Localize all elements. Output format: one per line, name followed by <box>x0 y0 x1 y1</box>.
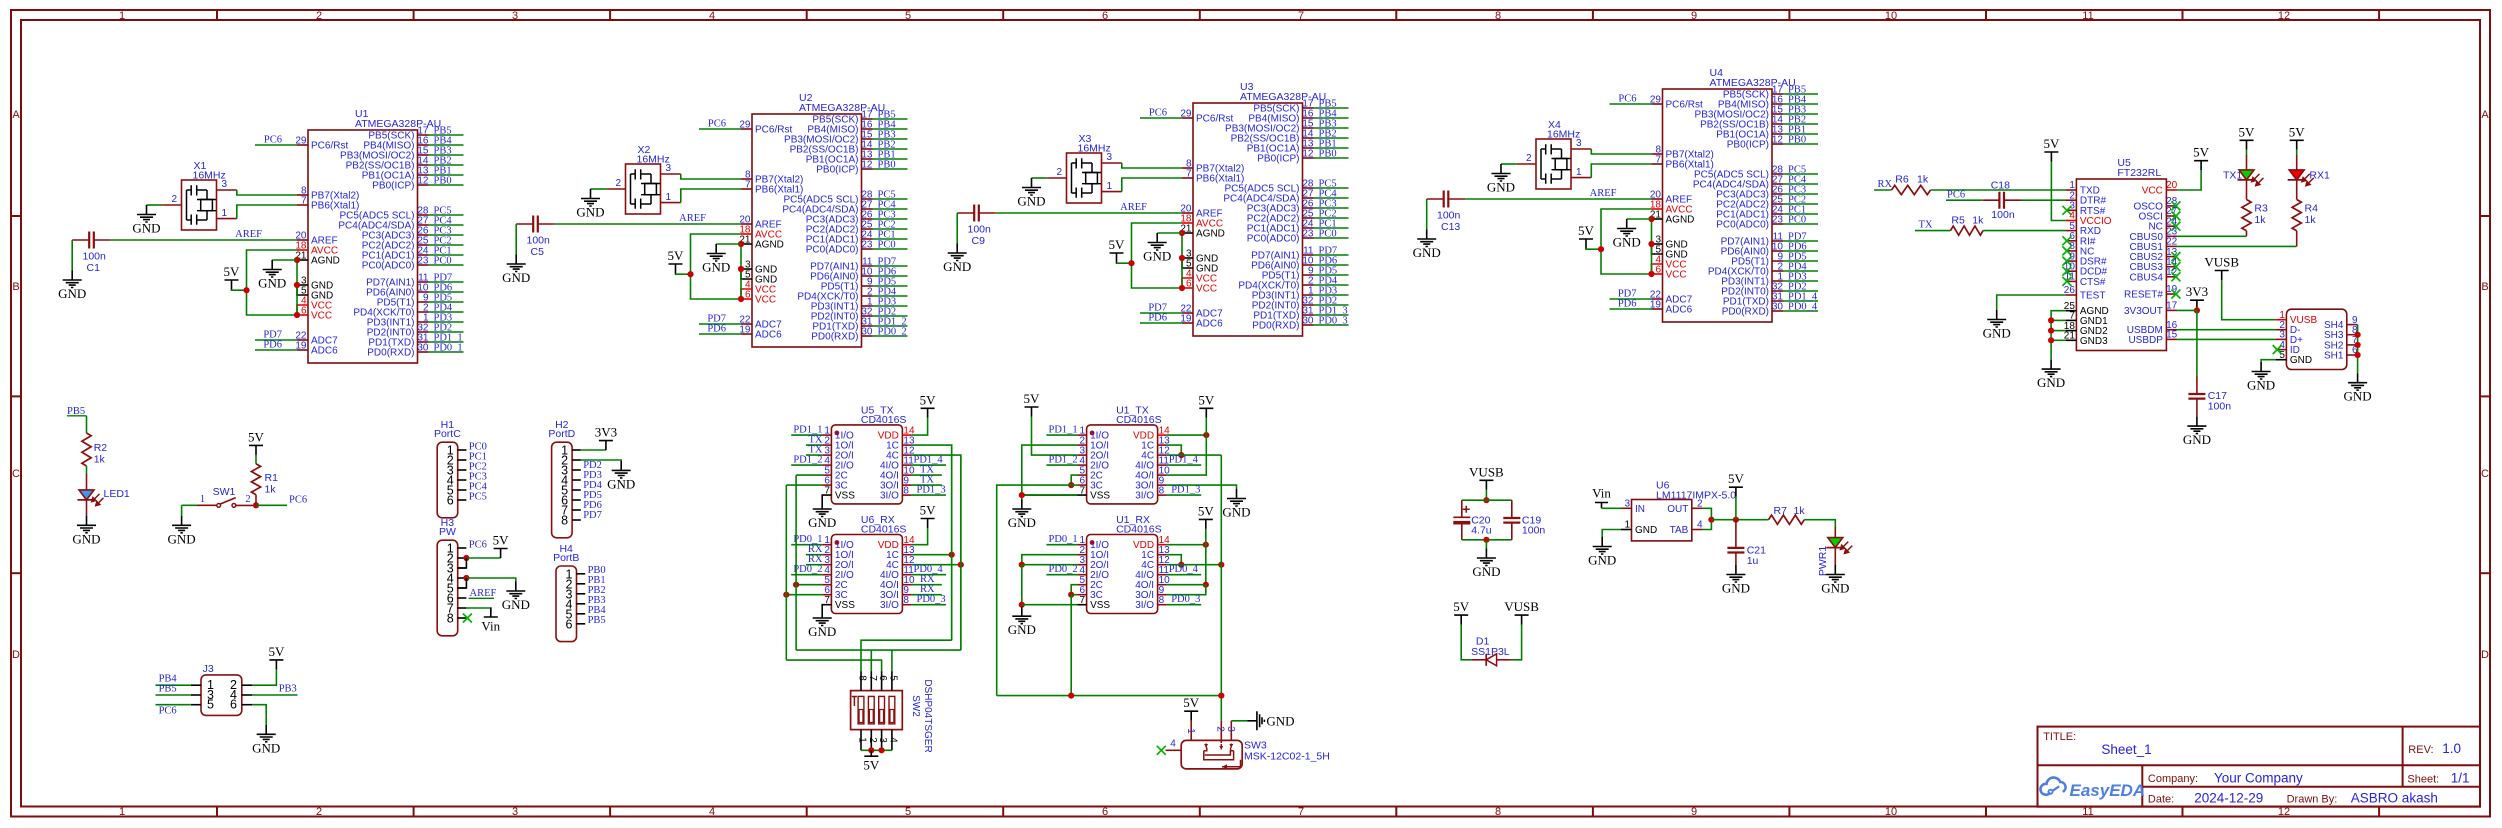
H4 pin 4 <box>577 603 586 605</box>
crystal X1 16MHz <box>182 180 217 230</box>
wire <box>873 138 908 140</box>
svg-text:GND: GND <box>1008 622 1036 637</box>
ground for C9 <box>948 244 967 261</box>
U2 pin 17 PB5(SCK) net PB5 <box>862 118 873 120</box>
U3 pin 12 PB0(ICP) net PB0 <box>1303 157 1314 159</box>
junction U1_TX gnd rail <box>1019 492 1025 498</box>
svg-text:PC0: PC0 <box>434 256 452 267</box>
junction C20/C19 top <box>1483 497 1489 503</box>
J3 pin 2 <box>242 684 252 686</box>
U4 pin 10 PD6(AIN0) net PD6 <box>1772 250 1783 252</box>
U1_TX pin 13 1C <box>1158 444 1167 446</box>
svg-text:3: 3 <box>512 806 518 818</box>
U1_RX pin 11 4I/O <box>1158 574 1167 576</box>
ground for U1_TX pin9 <box>1227 489 1246 506</box>
U4 pin 28 PC5(ADC5 SCL) net PC5 <box>1772 173 1783 175</box>
U5 pin 4 VCCIO <box>2066 220 2077 222</box>
svg-text:PWR1: PWR1 <box>1817 546 1829 576</box>
U2 pin 28 PC5(ADC5 SCL) net PC5 <box>862 198 873 200</box>
wire U5_TX pin5 to bus <box>796 474 822 476</box>
U3 pin 1 PD3(INT1) net PD3 <box>1303 294 1314 296</box>
U1 pin 15 PB3(MOSI/OC2) net PB3 <box>418 154 429 156</box>
U2 pin 11 PD7(AIN1) net PD7 <box>862 265 873 267</box>
H3 pin 4 <box>458 577 467 579</box>
svg-text:6: 6 <box>566 617 573 631</box>
wire net PC6 <box>256 504 287 506</box>
switch SW1 <box>197 504 217 506</box>
wire bus to SW2 pin6 <box>786 660 881 671</box>
U1_RX pin 6 3C <box>1077 594 1086 596</box>
wire U5_TX VSS to ground <box>822 495 831 499</box>
U1 pin 10 PD6(AIN0) net PD6 <box>418 291 429 293</box>
svg-text:GND: GND <box>252 740 280 755</box>
junction <box>1598 246 1604 252</box>
U1 pin 17 PB5(SCK) net PB5 <box>418 134 429 136</box>
Vin power flag <box>484 608 498 618</box>
bus wire U5 pin6 vertical <box>785 485 787 660</box>
H3 pin 2 <box>458 557 467 559</box>
svg-text:19: 19 <box>1180 314 1192 325</box>
U5 pin 16 USBDM <box>2166 329 2177 331</box>
svg-text:PD0_4: PD0_4 <box>1169 564 1199 575</box>
connector H3 PW <box>437 540 458 636</box>
junction <box>1128 260 1134 266</box>
H2 pin 5 <box>572 489 581 491</box>
svg-text:8: 8 <box>1495 10 1501 22</box>
svg-text:11: 11 <box>2082 806 2093 818</box>
svg-text:RESET#: RESET# <box>2124 290 2163 301</box>
svg-text:19: 19 <box>739 325 751 336</box>
svg-text:GND: GND <box>1821 581 1849 596</box>
svg-text:1k: 1k <box>2305 214 2317 226</box>
U4 pin 15 PB3(MOSI/OC2) net PB3 <box>1772 113 1783 115</box>
wire U6_RX pin5 to bus <box>796 584 822 586</box>
svg-text:R3: R3 <box>2254 203 2268 215</box>
junction U6_RX pin12 <box>958 562 964 568</box>
U1 pin 8 PB7(Xtal2) <box>297 194 308 196</box>
wire <box>1783 300 1818 302</box>
USB pin 1 VUSB <box>2276 319 2287 321</box>
SW3 pin3 to ground <box>1230 721 1232 741</box>
svg-text:J3: J3 <box>203 663 214 675</box>
wire <box>1314 147 1349 149</box>
USB pin 4 ID <box>2276 349 2287 351</box>
svg-text:5V: 5V <box>920 503 937 518</box>
U1 pin 5 GND <box>297 285 308 295</box>
svg-text:6: 6 <box>1102 806 1108 818</box>
wire U1_TX pin6 <box>1071 484 1077 486</box>
U5 pin 7 GND1 <box>2066 319 2077 321</box>
U1_TX pin 14 VDD <box>1158 434 1167 436</box>
wire H2 pin1 to 3V3 <box>581 449 606 451</box>
U2 pin 23 PC0(ADC0) net PC0 <box>862 248 873 250</box>
wire <box>1783 310 1818 312</box>
svg-text:5V: 5V <box>268 644 285 659</box>
ground for LED1 <box>77 516 96 533</box>
svg-text:3V3: 3V3 <box>2186 284 2208 299</box>
wire net RX pin10 <box>912 584 942 586</box>
U4 pin 7 PB6(Xtal1) <box>1652 163 1663 165</box>
svg-text:23: 23 <box>1302 229 1314 240</box>
svg-text:PB3: PB3 <box>279 684 297 695</box>
wire <box>873 168 908 170</box>
junction GND3 <box>1179 255 1185 261</box>
svg-text:PB6(Xtal1): PB6(Xtal1) <box>755 185 803 196</box>
svg-text:PC5: PC5 <box>469 491 487 502</box>
svg-text:100n: 100n <box>83 251 107 263</box>
wire <box>1314 274 1349 276</box>
svg-text:GND: GND <box>2247 378 2275 393</box>
wire <box>1783 270 1818 272</box>
svg-text:GND: GND <box>1266 713 1294 728</box>
svg-text:PD6: PD6 <box>707 324 726 335</box>
wire <box>1783 183 1818 185</box>
svg-text:TX: TX <box>1919 220 1933 231</box>
wire <box>1783 133 1818 135</box>
USB pin 6 SH1 <box>2347 354 2358 356</box>
svg-text:6: 6 <box>1186 279 1192 290</box>
capacitor C19 100n <box>1511 500 1513 518</box>
wire net PD1_4 (U1_TX) <box>1167 464 1201 466</box>
wire USBDP to D+ <box>2177 338 2275 340</box>
svg-text:3: 3 <box>222 179 228 190</box>
wire crystal pin1 to pin7 <box>1122 178 1182 192</box>
U1 pin 3 GND <box>297 284 308 286</box>
svg-text:A: A <box>12 109 20 121</box>
wire <box>1783 260 1818 262</box>
H1 pin 6 <box>458 499 467 501</box>
U2 pin 3 GND <box>741 268 752 270</box>
svg-text:PD1_3: PD1_3 <box>917 485 946 496</box>
bus wire 4C vertical <box>960 455 962 650</box>
U2 pin 18 AVCC <box>741 233 752 235</box>
svg-text:100n: 100n <box>1522 525 1546 537</box>
wire GND1 <box>2051 319 2066 321</box>
svg-text:7: 7 <box>1298 806 1304 818</box>
U6 pin 3 IN <box>1621 507 1632 509</box>
junction C20/C19 bottom <box>1483 537 1489 543</box>
wire net PD7 <box>699 323 741 325</box>
wire U1_RX pin6 <box>1071 594 1077 596</box>
svg-text:5V: 5V <box>248 429 265 444</box>
wire AVCC to VCC rail <box>691 234 742 299</box>
junction 3V3OUT <box>2194 307 2200 313</box>
svg-text:6: 6 <box>1655 265 1661 276</box>
U4 pin 12 PB0(ICP) net PB0 <box>1772 143 1783 145</box>
svg-text:30: 30 <box>1302 316 1314 327</box>
U5_TX pin 2 1O/I <box>822 444 831 446</box>
U5 pin 25 AGND <box>2066 310 2077 312</box>
wire 5V to VCCIO <box>2051 162 2065 221</box>
wire SW2 bottom common <box>861 749 892 751</box>
USB-UART bridge U5 FT232RL <box>2076 179 2166 351</box>
U2 pin 30 PD0(RXD) net PD0_2 <box>862 335 873 337</box>
svg-text:PD1_4: PD1_4 <box>1169 455 1199 466</box>
U5 pin 12 CBUS4 <box>2166 276 2177 278</box>
U3 pin 26 PC3(ADC3) net PC3 <box>1303 207 1314 209</box>
svg-text:PC6/Rst: PC6/Rst <box>311 141 348 152</box>
svg-text:SS1P3L: SS1P3L <box>1471 646 1510 658</box>
svg-text:GND: GND <box>1222 505 1250 520</box>
U1_RX pin 5 2C <box>1077 584 1086 586</box>
svg-text:10: 10 <box>1885 10 1897 22</box>
wire <box>1314 117 1349 119</box>
wire PWR1 to ground <box>1834 548 1836 565</box>
U1 pin 30 PD0(RXD) net PD0_1 <box>418 351 429 353</box>
U2 pin 29 PC6/Rst <box>741 128 752 130</box>
wire <box>1783 280 1818 282</box>
U5 pin 9 DSR# <box>2066 260 2077 262</box>
svg-text:PD0(RXD): PD0(RXD) <box>367 348 414 359</box>
U3 pin 24 PC1(ADC1) net PC1 <box>1303 227 1314 229</box>
U1_RX pin 1 1I/O <box>1077 544 1086 546</box>
wire net PC6 <box>1140 117 1182 119</box>
wire net PD0_1 (U1_RX) <box>1046 544 1077 546</box>
svg-text:1k: 1k <box>265 484 277 496</box>
svg-text:PD0_2: PD0_2 <box>793 564 822 575</box>
svg-text:17: 17 <box>2166 301 2178 312</box>
svg-text:5V: 5V <box>920 392 937 407</box>
U1_RX pin 4 2I/O <box>1077 574 1086 576</box>
U2 pin 32 PD2(INT0) net PD2 <box>862 315 873 317</box>
U6_RX pin 3 2O/I <box>822 564 831 566</box>
svg-text:6: 6 <box>1102 10 1108 22</box>
U5_TX pin 12 4C <box>902 454 911 456</box>
ground for PWR1 <box>1826 565 1845 582</box>
wire <box>429 144 464 146</box>
U5 pin 10 DCD# <box>2066 270 2077 272</box>
svg-text:VSS: VSS <box>835 491 855 502</box>
U3 pin 16 PB4(MISO) net PB4 <box>1303 117 1314 119</box>
svg-text:D: D <box>12 649 20 661</box>
U3 pin 8 PB7(Xtal2) <box>1182 167 1193 169</box>
wire TX1 to R3 <box>2246 180 2248 199</box>
U4 pin 29 PC6/Rst <box>1652 103 1663 105</box>
USB pin 2 D- <box>2276 329 2287 331</box>
junction U1_RX pin6 <box>1068 592 1074 598</box>
U5 pin 15 USBDP <box>2166 338 2177 340</box>
svg-text:5V: 5V <box>493 533 510 548</box>
DIP switch SW2 DSHP04TSGER <box>851 691 903 730</box>
wire PB5 to R2 <box>86 416 88 433</box>
svg-text:7: 7 <box>1655 155 1661 166</box>
U5 pin 11 CTS# <box>2066 280 2077 282</box>
U5_TX pin 10 4O/I <box>902 474 911 476</box>
svg-text:GND3: GND3 <box>2080 336 2108 347</box>
X2 pin 3 <box>661 173 681 175</box>
wire R7 to PWR1 <box>1804 520 1835 527</box>
svg-text:GND: GND <box>1017 194 1045 209</box>
svg-text:1: 1 <box>1185 728 1196 734</box>
USB pin 5 GND <box>2276 359 2287 361</box>
svg-text:AREF: AREF <box>679 213 706 224</box>
U2 pin 1 PD3(INT1) net PD3 <box>862 305 873 307</box>
ground for C13 <box>1417 230 1436 247</box>
svg-text:5V: 5V <box>2193 145 2210 160</box>
svg-text:ADC6: ADC6 <box>311 346 338 357</box>
sideways ground for SW3 <box>1247 711 1264 730</box>
J3 pin 5 <box>191 704 201 706</box>
U4 pin 20 AREF <box>1652 198 1663 200</box>
wire <box>1783 123 1818 125</box>
U4 pin 13 PB1(OC1A) net PB1 <box>1772 133 1783 135</box>
wire U1_TX pin3 to 5V <box>1032 417 1078 456</box>
U6_RX pin 13 1C <box>902 554 911 556</box>
svg-text:1: 1 <box>1624 520 1630 531</box>
LED PWR1 (green) <box>1828 538 1843 548</box>
wire AVCC to VCC rail <box>247 250 298 315</box>
U1_RX pin 13 1C <box>1158 554 1167 556</box>
junction U1_TX pin12 <box>1178 452 1184 458</box>
H2 pin 2 <box>572 459 581 461</box>
H3 pin 3 <box>458 567 467 569</box>
slide switch SW3 MSK-12C02-1_5H <box>1181 740 1242 769</box>
svg-text:PB0: PB0 <box>1319 149 1337 160</box>
svg-text:PC0(ADC0): PC0(ADC0) <box>1716 220 1769 231</box>
svg-text:GND: GND <box>808 515 836 530</box>
connector H2 PortD <box>552 442 573 538</box>
no-connect U5 pin 9 <box>2062 257 2071 266</box>
X2 pin 2 <box>606 188 625 190</box>
wire net RX pin3 <box>806 564 822 566</box>
svg-text:GND: GND <box>2344 389 2372 404</box>
U1_TX pin 3 2O/I <box>1077 454 1086 456</box>
U6 pin 1 GND <box>1621 529 1632 531</box>
U5 pin 20 VCC <box>2166 189 2177 191</box>
U2 pin 14 PB2(SS/OC1B) net PB2 <box>862 148 873 150</box>
junction SH2 <box>2355 342 2361 348</box>
svg-text:12: 12 <box>417 176 429 187</box>
junction AGND <box>738 241 744 247</box>
svg-text:10: 10 <box>1885 806 1897 818</box>
voltage regulator U6 LM1117IMPX-5.0 <box>1632 500 1692 541</box>
wire bus to SW2 pins 7/5 <box>796 649 961 651</box>
U4 pin 3 GND <box>1652 243 1663 245</box>
H4 pin 1 <box>577 573 586 575</box>
wire C1 to ground <box>71 240 73 271</box>
wire crystal pin1 to pin7 <box>681 189 741 203</box>
title block <box>2038 727 2481 807</box>
svg-text:11: 11 <box>2082 10 2093 22</box>
wire U6_RX pin12 to bus <box>912 564 961 566</box>
wire <box>1314 157 1349 159</box>
svg-text:PortC: PortC <box>434 428 461 440</box>
J3 pin 4 <box>242 694 252 696</box>
capacitor C21 1u <box>1735 520 1737 548</box>
svg-text:5V: 5V <box>668 248 685 263</box>
U6_RX pin 1 1I/O <box>822 544 831 546</box>
wire net PD1_3 <box>912 494 946 496</box>
wire <box>429 224 464 226</box>
wire 5V down <box>1735 497 1737 520</box>
U5 pin 23 CBUS0 <box>2166 235 2177 237</box>
ground for TEST <box>1987 310 2006 327</box>
U2 pin 2 PD4(XCK/T0) net PD4 <box>862 295 873 297</box>
wire AREF net <box>555 223 741 225</box>
U2 pin 26 PC3(ADC3) net PC3 <box>862 218 873 220</box>
no-connect U5 pin 6 <box>2062 236 2071 245</box>
J3 pin 3 <box>191 694 201 696</box>
svg-text:AREF: AREF <box>1590 188 1617 199</box>
svg-text:1: 1 <box>1107 181 1113 192</box>
svg-text:PC6: PC6 <box>159 706 177 717</box>
U6_RX pin 10 4O/I <box>902 584 911 586</box>
ground for AGND <box>1617 219 1636 236</box>
svg-text:2: 2 <box>1215 726 1226 732</box>
svg-text:PD0_2: PD0_2 <box>1049 564 1078 575</box>
svg-text:3: 3 <box>666 163 672 174</box>
U3 pin 23 PC0(ADC0) net PC0 <box>1303 237 1314 239</box>
wire net PD6 <box>1610 308 1652 310</box>
svg-text:PC6: PC6 <box>1947 190 1965 201</box>
ground for U6_RX <box>813 609 832 626</box>
X1 pin 1 <box>217 218 237 220</box>
wire <box>1314 314 1349 316</box>
svg-text:AGND: AGND <box>755 240 784 251</box>
svg-text:29: 29 <box>1650 95 1662 106</box>
U5_TX pin 4 2I/O <box>822 464 831 466</box>
U5 pin 17 3V3OUT <box>2166 309 2177 311</box>
svg-text:2: 2 <box>316 806 322 818</box>
svg-text:1: 1 <box>119 10 125 22</box>
svg-text:6: 6 <box>877 675 888 681</box>
U5 pin 1 TXD <box>2066 189 2077 191</box>
svg-text:CD4016S: CD4016S <box>861 524 907 536</box>
svg-text:100n: 100n <box>1437 210 1461 222</box>
svg-text:TX1: TX1 <box>2223 169 2242 181</box>
svg-text:1: 1 <box>119 806 125 818</box>
wire U1_RX VSS tie <box>1022 604 1078 606</box>
wire crystal pin2 to ground <box>1501 163 1517 165</box>
wire <box>873 148 908 150</box>
wire TEST to ground <box>1997 295 2066 310</box>
junction AGND <box>1179 230 1185 236</box>
U5 pin 14 CBUS3 <box>2166 266 2177 268</box>
U2 pin 16 PB4(MISO) net PB4 <box>862 128 873 130</box>
wire SW1 pin2 to node <box>236 504 256 506</box>
wire net PD1_4 <box>912 464 946 466</box>
resistor R5 1k <box>1951 226 1984 235</box>
wire <box>429 234 464 236</box>
U2 pin 20 AREF <box>741 223 752 225</box>
wire U1_RX pin3 left <box>1022 564 1078 566</box>
wire net PD0_4 (U1_RX) <box>1167 574 1201 576</box>
svg-text:GND: GND <box>1613 235 1641 250</box>
no-connect USB ID <box>2273 345 2282 354</box>
svg-text:TITLE:: TITLE: <box>2043 731 2076 743</box>
U2 pin 13 PB1(OC1A) net PB1 <box>862 158 873 160</box>
H4 pin 3 <box>577 593 586 595</box>
svg-text:5: 5 <box>905 806 911 818</box>
svg-text:5V: 5V <box>1578 223 1595 238</box>
svg-text:CTS#: CTS# <box>2080 277 2106 288</box>
svg-text:ASBRO akash: ASBRO akash <box>2351 791 2438 806</box>
wire <box>873 198 908 200</box>
wire VUSB down <box>1485 490 1487 500</box>
svg-text:3V3: 3V3 <box>595 425 617 440</box>
U5_TX pin 6 3C <box>822 484 831 486</box>
capacitor C9 100n <box>974 205 979 222</box>
svg-text:6: 6 <box>745 290 751 301</box>
wire crystal pin3 to pin8 <box>237 190 297 195</box>
U4 pin 2 PD4(XCK/T0) net PD4 <box>1772 270 1783 272</box>
wire crystal pin3 to pin8 <box>681 174 741 179</box>
wire <box>1314 207 1349 209</box>
U1 pin 20 AREF <box>297 239 308 241</box>
svg-text:3: 3 <box>512 10 518 22</box>
wire <box>429 351 464 353</box>
resistor R7 1k <box>1769 515 1805 524</box>
